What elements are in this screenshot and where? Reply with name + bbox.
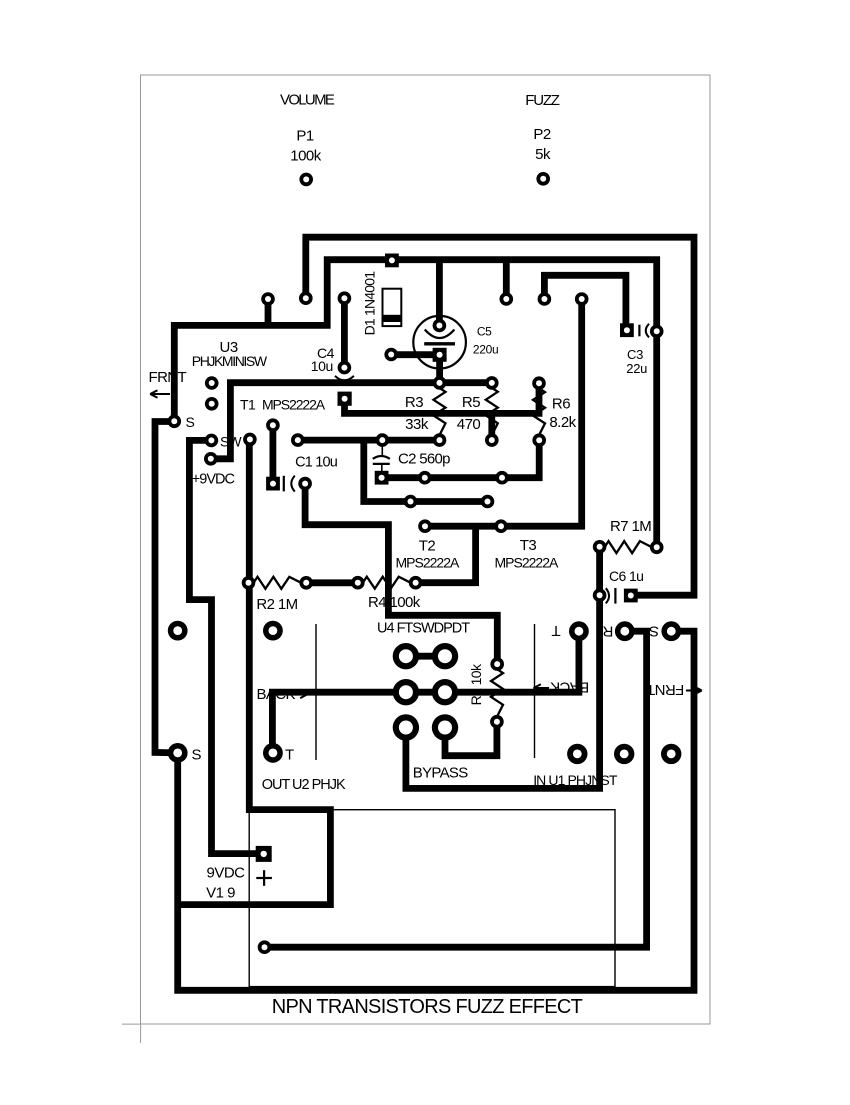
wire C5 square pad to R3 top pad [436, 355, 443, 383]
pad C4 plus (square) [338, 392, 352, 406]
svg-text:R6: R6 [552, 396, 570, 413]
svg-text:BACK: BACK [257, 686, 296, 703]
svg-text:R: R [602, 622, 613, 639]
pad C2 square [375, 471, 389, 485]
svg-text:S: S [192, 747, 202, 764]
arrow BACK right [292, 691, 308, 699]
FRNT label top-left [149, 369, 187, 386]
node P2 label [533, 126, 551, 163]
title NPN TRANSISTORS FUZZ EFFECT [272, 996, 583, 1018]
transistor T1 left pad [243, 433, 257, 447]
pad wire gnd B [500, 292, 514, 306]
BACK label left [257, 686, 296, 703]
svg-text:BYPASS: BYPASS [413, 765, 468, 782]
transistor T3 bottom pad [494, 519, 508, 533]
IN jack lower pad 1 [567, 744, 587, 764]
resistor R1 label R1 10k [468, 663, 484, 705]
pad R1 bottom [490, 715, 504, 729]
wire U4 row3 left pad to C6 round pad and R7 left pad [406, 547, 600, 789]
svg-text:SW: SW [220, 433, 242, 449]
capacitor C1 plus (square pad) [266, 477, 280, 491]
svg-text:T3: T3 [520, 537, 537, 554]
pad S top [168, 415, 182, 429]
capacitor C6 label C6 1u [609, 568, 643, 584]
wire C2 square pad to R6 bottom pad [382, 440, 540, 478]
BACK label right (rotated) [550, 679, 589, 696]
transistor T2 bottom pad [418, 519, 432, 533]
resistor R7 label R7 1M [610, 518, 651, 535]
wire stub pad to ground rail 2 [503, 260, 510, 299]
svg-text:S: S [649, 622, 659, 639]
svg-text:10u: 10u [311, 358, 333, 374]
resistor R4 label R4 100k [368, 594, 421, 611]
capacitor C2 bottom plate [373, 463, 390, 465]
pad C1 minus [298, 477, 312, 491]
svg-text:8.2k: 8.2k [549, 414, 576, 431]
wire R5 bottom pad stub [488, 413, 495, 440]
capacitor C5 plate arc [425, 330, 455, 339]
pad C4 top [338, 361, 352, 375]
wire base row: T1 right pad to R3 bottom pad [298, 437, 440, 444]
svg-text:MPS2222A: MPS2222A [495, 555, 559, 571]
diode D1 label D1 1N4001 [362, 271, 378, 336]
capacitor C1 plate bar [283, 476, 285, 492]
capacitor C6 plate bar [614, 588, 616, 604]
wire volume-pad to C6 square (top long trace) [306, 237, 694, 595]
IN jack lower pad 3 [661, 744, 681, 764]
wire stub pad to ground rail [265, 299, 272, 325]
svg-text:33k: 33k [405, 416, 429, 433]
wire ground top rail: pad S to C3 round pad [174, 260, 656, 548]
capacitor C6 plus (square pad) [624, 589, 638, 603]
resistor R2 label R2 1M [256, 596, 297, 613]
U4 label [377, 621, 470, 637]
svg-text:R7 1M: R7 1M [610, 518, 651, 535]
U4 pad 6 [432, 714, 458, 740]
U4 pad 3 [393, 679, 419, 705]
pad R3 top / C5 junction [433, 376, 447, 390]
svg-text:FRNT: FRNT [149, 369, 187, 386]
transistor T2 top pad [418, 471, 432, 485]
resistor R3 zigzag [434, 383, 446, 440]
svg-text:C5: C5 [477, 324, 492, 338]
svg-text:U4 FTSWDPDT: U4 FTSWDPDT [377, 621, 470, 637]
wire D1 bottom pad to C5 square pad [391, 351, 440, 358]
OUT jack T pad [263, 743, 283, 763]
pad wire volume [299, 291, 313, 305]
U4 pad 1 [393, 643, 419, 669]
capacitor C2 label C2 560p [398, 451, 450, 468]
OUT jack upper pad [263, 621, 283, 641]
svg-text:+9VDC: +9VDC [192, 472, 235, 488]
wire branch emitter rail to R4 right pad [416, 526, 476, 583]
capacitor C3 plate arc [646, 324, 649, 338]
pad R3 bottom [433, 433, 447, 447]
arrow FRNT left [150, 390, 170, 398]
IN jack outline [534, 624, 536, 758]
capacitor C2 top plate [373, 456, 390, 459]
svg-text:S: S [186, 414, 195, 430]
U3 pad SW [205, 434, 219, 448]
svg-text:T: T [551, 622, 560, 639]
battery V1 plus sign [256, 870, 272, 886]
capacitor C6 plate arc [606, 588, 609, 603]
svg-text:R2 1M: R2 1M [256, 596, 297, 613]
resistor R7 zigzag [600, 541, 657, 553]
svg-text:PHJKMINISW: PHJKMINISW [192, 353, 268, 369]
svg-text:C1 10u: C1 10u [295, 454, 338, 470]
U3 label [192, 339, 268, 369]
svg-text:P2: P2 [533, 126, 551, 143]
svg-text:R3: R3 [405, 394, 423, 411]
U4 pad 4 [432, 679, 458, 705]
svg-text:NPN TRANSISTORS FUZZ EFFECT: NPN TRANSISTORS FUZZ EFFECT [272, 996, 583, 1018]
svg-text:C6 1u: C6 1u [609, 568, 643, 584]
pad P2 wire [536, 172, 550, 186]
pad R1 top [490, 657, 504, 671]
node S label bottom [192, 747, 202, 764]
capacitor C1 plate arc [291, 476, 295, 492]
svg-text:VOLUME: VOLUME [280, 91, 335, 108]
wire C4 square pad to R6 top pad [345, 383, 540, 413]
capacitor C1 label C1 10u [295, 454, 338, 470]
node +9VDC label [192, 472, 235, 488]
wire IN jack R pad to bottom pad [265, 631, 647, 947]
svg-text:MPS2222A: MPS2222A [262, 396, 326, 412]
svg-text:T1: T1 [240, 396, 256, 412]
svg-text:470: 470 [457, 416, 481, 433]
capacitor C3 plus (square pad) [620, 323, 634, 337]
transistor T2 middle pad [404, 495, 418, 509]
pad R4 left [351, 576, 365, 590]
U4 BYPASS label [413, 765, 468, 782]
pad R7 left [593, 540, 607, 554]
pad wire gnd A [261, 292, 275, 306]
node SW label [220, 433, 242, 449]
arrow BACK right side [534, 684, 550, 692]
wire fuzz-pad to C3 square [544, 275, 626, 330]
pad R4 right [409, 576, 423, 590]
svg-text:FUZZ: FUZZ [525, 92, 560, 109]
pad R6 top [532, 376, 546, 390]
capacitor C2 leads [381, 443, 384, 472]
IN jack R pad [615, 621, 635, 641]
U3 pad 1 [205, 376, 219, 390]
pad R5 bottom [485, 433, 499, 447]
IN jack R label (rotated) [602, 622, 613, 639]
capacitor C4 plate arc [335, 376, 354, 381]
transistor T2 label [396, 538, 460, 571]
pad C5 top [433, 319, 447, 333]
wire pad to C4 top pad [341, 298, 348, 367]
svg-text:220u: 220u [473, 343, 499, 357]
capacitor C4 label [311, 345, 335, 374]
svg-text:22u: 22u [626, 361, 647, 376]
battery V1 plus pad (square) [256, 846, 272, 862]
pad R2 left [242, 576, 256, 590]
svg-text:V1 9: V1 9 [206, 885, 235, 902]
wire R1 bottom pad to U4 row3 right pad [445, 722, 497, 756]
pad R5 top [485, 376, 499, 390]
U4 pad 5 [393, 714, 419, 740]
resistor R1 zigzag [491, 664, 503, 722]
transistor T3 top pad [495, 471, 509, 485]
FRNT label right (rotated) [646, 681, 684, 698]
svg-text:100k: 100k [290, 148, 322, 165]
pad R6 bottom [532, 433, 546, 447]
battery V1 label [206, 864, 245, 901]
pad P1 wire [299, 173, 313, 187]
node P1 label [290, 127, 322, 164]
diode D1 cathode band [383, 315, 402, 322]
svg-text:P1: P1 [296, 127, 314, 144]
transistor T1 right pad [291, 433, 305, 447]
U3 pad 2 [205, 397, 219, 411]
pad battery bottom wire [258, 940, 272, 954]
pad wire fuzz [538, 292, 552, 306]
transistor T1 label [240, 396, 326, 412]
pad C2 top [376, 433, 390, 447]
wire T1 left pad / R2 left pad down to ground bottom [178, 439, 330, 904]
capacitor C5 can outline [413, 316, 466, 369]
svg-text:R4 100k: R4 100k [368, 594, 421, 611]
wire U4 row1 link [406, 653, 445, 660]
svg-text:BACK: BACK [550, 679, 589, 696]
IN jack T label (rotated) [551, 622, 560, 639]
svg-text:IN U1 PHJNST: IN U1 PHJNST [533, 772, 618, 788]
svg-text:C3: C3 [627, 347, 643, 362]
IN jack S pad [661, 621, 681, 641]
pad wire C4 [338, 291, 352, 305]
resistor R6 label [549, 396, 576, 432]
resistor R5 label [457, 394, 481, 433]
resistor R2 zigzag [249, 577, 307, 589]
svg-text:FRNT: FRNT [646, 681, 684, 698]
svg-text:T: T [285, 747, 294, 764]
svg-text:MPS2222A: MPS2222A [396, 555, 460, 571]
pad C6 minus [593, 588, 607, 602]
transistor T3 middle pad [481, 495, 495, 509]
pad C5 plus (square) [433, 348, 447, 362]
wire IN jack T pad to OUT jack T pad through U4 row 2 [272, 631, 579, 753]
node VOLUME label [280, 91, 335, 108]
pad R2 right [299, 576, 313, 590]
wire stub C5 top pad to ground rail [436, 260, 443, 326]
wire SW pad to battery plus pad [189, 440, 263, 853]
OUT jack label [262, 777, 346, 793]
OUT jack outline [315, 624, 317, 760]
transistor T1 top pad [266, 418, 280, 432]
wire emitter rail: pad to T2/T3 bottom pads [425, 299, 582, 526]
pad C3 minus [650, 325, 664, 339]
capacitor C5 label [473, 324, 499, 356]
node FUZZ label [525, 92, 560, 109]
wire T1 top pad to C1 square pad [269, 425, 276, 480]
diode D1 body outline [383, 289, 402, 326]
FRNT jack S pad [168, 743, 188, 763]
capacitor C3 label [626, 347, 647, 376]
FRNT jack upper pad [168, 621, 188, 641]
capacitor C5 plate bar [424, 342, 455, 345]
svg-text:OUT U2 PHJK: OUT U2 PHJK [262, 777, 346, 793]
wire +9VDC pad to R3/R5 top rail [211, 383, 492, 459]
transistor T3 label [495, 537, 559, 571]
svg-text:9VDC: 9VDC [206, 864, 245, 881]
resistor R4 zigzag [358, 577, 416, 589]
wire ground loop: pad S left side, bottom, right side to IN jack S [155, 422, 694, 991]
svg-text:R1 10k: R1 10k [468, 663, 484, 705]
resistor R6 zigzag [533, 383, 545, 440]
IN jack label [533, 772, 618, 788]
wire branch base row to T2/T3 middle pads [364, 440, 488, 501]
IN jack lower pad 2 [614, 744, 634, 764]
svg-text:D1 1N4001: D1 1N4001 [362, 271, 378, 336]
IN jack T pad [569, 621, 589, 641]
U3 pad plus [204, 452, 218, 466]
node T label [285, 747, 294, 764]
svg-text:R5: R5 [462, 394, 480, 411]
IN jack S label (rotated) [649, 622, 659, 639]
resistor R3 label [405, 394, 429, 433]
arrow FRNT right side [686, 687, 702, 695]
svg-text:T2: T2 [419, 538, 436, 555]
battery outline [249, 810, 615, 987]
border frame [122, 75, 710, 1043]
wire R2 right pad to R4 left pad [306, 579, 358, 586]
node S label top [186, 414, 195, 430]
svg-text:5k: 5k [535, 146, 551, 163]
resistor R5 zigzag [486, 383, 498, 440]
pad D1 top (square) [385, 254, 399, 268]
pad R7 right [650, 541, 664, 555]
svg-text:C2 560p: C2 560p [398, 451, 450, 468]
pad D1 bottom [384, 348, 398, 362]
U4 pad 2 [432, 643, 458, 669]
pad wire emitter [575, 292, 589, 306]
wire C1 round pad to R1 top pad [305, 484, 497, 664]
capacitor C3 plate bar [638, 325, 640, 337]
